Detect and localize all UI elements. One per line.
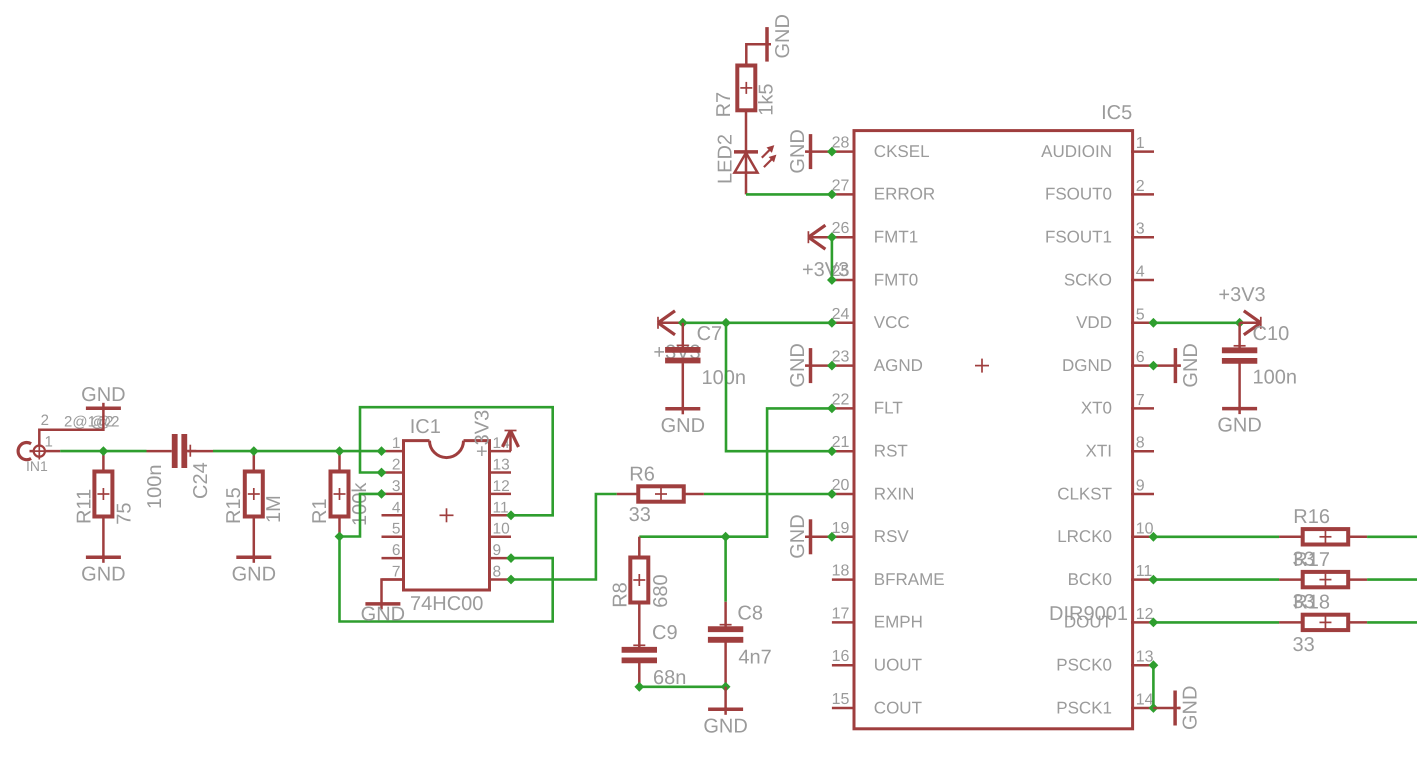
node FLT (827, 404, 837, 414)
svg-text:1k5: 1k5 (756, 84, 778, 116)
svg-text:4: 4 (392, 499, 401, 516)
svg-text:4: 4 (1136, 264, 1145, 281)
svg-text:GND: GND (1180, 343, 1202, 387)
pin 21 RST (IC5) (832, 434, 908, 460)
node C9 bottom (634, 682, 644, 692)
IC U5 DIR9001 body IC5 (854, 131, 1133, 729)
svg-text:22: 22 (832, 391, 850, 408)
ground GND (IC5 pin6 DGND) (1153, 343, 1202, 387)
svg-text:+3V3: +3V3 (1218, 284, 1265, 306)
pin 4 SCKO (IC5) (1064, 264, 1154, 290)
svg-text:IC5: IC5 (1101, 102, 1132, 124)
svg-text:2: 2 (41, 412, 49, 429)
resistor R7 (737, 44, 771, 110)
resistor R15 (245, 451, 263, 555)
svg-text:680: 680 (650, 574, 672, 607)
node C7 top (678, 318, 688, 328)
node BCK0 (1149, 575, 1159, 585)
wire LED2 to ERROR pin27 (746, 193, 832, 196)
capacitor C8 (708, 537, 743, 687)
pin 10 (IC1) (490, 521, 512, 538)
node IC1 pin8 (506, 575, 516, 585)
pin 16 UOUT (IC5) (832, 648, 922, 674)
+3V3 supply (FMT1/FMT0) (808, 225, 832, 249)
svg-text:10: 10 (493, 521, 511, 538)
ground GND (PSCK1) (1153, 686, 1201, 730)
ground GND (IC5 pin23 AGND) (787, 343, 832, 387)
svg-text:C24: C24 (190, 462, 212, 499)
resistor R8 (630, 537, 648, 603)
wire R6 to RXIN pin20 (704, 493, 832, 496)
node RXIN (827, 489, 837, 499)
svg-text:R11: R11 (73, 489, 95, 524)
svg-text:5: 5 (1136, 306, 1145, 323)
svg-text:27: 27 (832, 177, 850, 194)
node DOUT (1149, 618, 1159, 628)
svg-text:C10: C10 (1253, 323, 1290, 345)
node IC1 pin2 (377, 468, 387, 478)
svg-text:XTI: XTI (1086, 442, 1112, 461)
svg-text:R7: R7 (713, 92, 735, 118)
svg-text:1: 1 (392, 435, 401, 452)
wire BCK0 to R17 (1153, 578, 1279, 581)
resistor R11 (94, 451, 112, 555)
pin 8 (IC1) (490, 564, 512, 581)
svg-text:6: 6 (392, 542, 401, 559)
pin 15 COUT (IC5) (832, 691, 922, 717)
LED LED2 (734, 110, 776, 194)
pin 22 FLT (IC5) (832, 391, 903, 417)
+3V3 supply (IC1 pin14) (503, 431, 519, 452)
wire FLT net (639, 408, 832, 536)
ground GND (IC5 pin19 RSV) (787, 514, 832, 558)
wire VDD to +3V3 (1153, 321, 1239, 324)
pin 8 XTI (IC5) (1086, 435, 1154, 461)
pin 3 FSOUT1 (IC5) (1045, 221, 1154, 247)
ground GND (top of IN1) (81, 384, 125, 410)
svg-text:GND: GND (787, 343, 809, 387)
svg-text:GND: GND (81, 563, 125, 585)
svg-text:2: 2 (1136, 178, 1145, 195)
ground GND (C7) (661, 407, 705, 437)
pin 7 (IC1) (382, 564, 405, 581)
svg-text:1: 1 (1136, 135, 1145, 152)
resistor R1 (331, 451, 349, 536)
svg-text:15: 15 (832, 691, 850, 708)
wire main input net (60, 450, 146, 453)
svg-text:PSCK1: PSCK1 (1056, 698, 1112, 717)
svg-text:BFRAME: BFRAME (874, 570, 945, 589)
svg-text:23: 23 (832, 349, 850, 366)
node AGND (827, 361, 837, 371)
svg-text:1: 1 (45, 434, 53, 451)
node DGND (1149, 361, 1159, 371)
pin 6 DGND (IC5) (1062, 349, 1154, 375)
svg-text:1M: 1M (263, 495, 285, 523)
svg-text:28: 28 (832, 135, 850, 152)
wire IN1 pin1 stub (45, 450, 60, 453)
svg-text:FSOUT0: FSOUT0 (1045, 185, 1112, 204)
svg-text:AGND: AGND (874, 356, 923, 375)
wire IC1 pin2 loop to pin11 (360, 407, 553, 515)
ground GND (C8) (703, 687, 747, 738)
svg-text:ERROR: ERROR (874, 185, 935, 204)
pin 3 (IC1) (382, 478, 405, 495)
svg-text:GND: GND (1217, 415, 1261, 437)
svg-text:8: 8 (493, 564, 502, 581)
svg-text:GND: GND (81, 384, 125, 406)
wire C9 bottom to C8 bottom (639, 685, 725, 688)
pin 11 BCK0 (IC5) (1068, 563, 1154, 589)
pin 12 (IC1) (490, 478, 512, 495)
svg-text:C9: C9 (652, 622, 678, 644)
svg-text:GND: GND (232, 563, 276, 585)
svg-text:2: 2 (392, 457, 401, 474)
svg-text:11: 11 (493, 499, 509, 516)
pin 26 FMT1 (IC5) (832, 220, 919, 246)
svg-text:FMT1: FMT1 (874, 228, 918, 247)
node VCC/RST branch (721, 318, 731, 328)
node R1 bottom junction (335, 532, 345, 542)
svg-text:FSOUT1: FSOUT1 (1045, 228, 1112, 247)
svg-text:PSCK0: PSCK0 (1056, 656, 1112, 675)
pin 14 (IC1) (490, 435, 512, 452)
resistor R17 (1279, 572, 1367, 587)
wire R17 output (1367, 578, 1417, 581)
pin 1 (IC1) (382, 435, 405, 452)
svg-text:100n: 100n (702, 367, 747, 389)
svg-text:CLKST: CLKST (1057, 484, 1112, 503)
svg-text:7: 7 (392, 564, 401, 581)
node PSCK0 (1149, 660, 1159, 670)
svg-text:9: 9 (1136, 478, 1145, 495)
svg-text:13: 13 (493, 457, 510, 474)
svg-text:74HC00: 74HC00 (410, 593, 483, 615)
svg-text:UOUT: UOUT (874, 656, 922, 675)
svg-text:GND: GND (787, 129, 809, 173)
svg-text:GND: GND (703, 715, 747, 737)
svg-text:17: 17 (832, 605, 850, 622)
svg-text:C7: C7 (697, 323, 723, 345)
wire FMT1 to FMT0 (831, 237, 834, 280)
node R1 top junction (335, 446, 345, 456)
svg-text:33: 33 (1293, 634, 1315, 656)
svg-text:SCKO: SCKO (1064, 270, 1112, 289)
pin 6 (IC1) (382, 542, 405, 559)
svg-text:IN1: IN1 (26, 458, 48, 474)
ground GND (R11) (81, 555, 125, 585)
svg-text:100n: 100n (1253, 367, 1298, 389)
capacitor C10 (1222, 323, 1257, 407)
pin 28 CKSEL (IC5) (832, 135, 930, 161)
svg-text:16: 16 (832, 648, 850, 665)
resistor R6 (617, 486, 704, 501)
node FMT1 (827, 232, 837, 242)
capacitor C24 (147, 434, 214, 468)
ground GND (R7) (767, 14, 794, 62)
svg-text:19: 19 (832, 520, 850, 537)
pin 5 VDD (IC5) (1076, 306, 1154, 332)
wire RST to VCC branch (726, 323, 832, 451)
node VDD (1149, 318, 1159, 328)
svg-text:FMT0: FMT0 (874, 270, 918, 289)
svg-text:DGND: DGND (1062, 356, 1112, 375)
node IC1 pin3 (377, 489, 387, 499)
wire IN1 pin2 to GND (39, 408, 103, 445)
svg-text:COUT: COUT (874, 698, 922, 717)
svg-text:XT0: XT0 (1081, 399, 1112, 418)
+3V3 supply (VCC) (658, 311, 683, 335)
wire R16 output (1367, 535, 1417, 538)
svg-text:3: 3 (1136, 221, 1145, 238)
svg-text:21: 21 (832, 434, 850, 451)
node IC1 pin9 (506, 553, 516, 563)
svg-text:RST: RST (874, 442, 908, 461)
wire C24 to IC1 pin 1 (213, 450, 382, 453)
svg-text:RXIN: RXIN (874, 484, 915, 503)
svg-text:6: 6 (1136, 349, 1145, 366)
resistor R16 (1279, 529, 1367, 544)
pin 24 VCC (IC5) (832, 306, 910, 332)
pin 2 FSOUT0 (IC5) (1045, 178, 1154, 204)
svg-text:R6: R6 (629, 463, 655, 485)
svg-text:12: 12 (493, 478, 510, 495)
node R11 top junction (99, 446, 109, 456)
svg-text:@2: @2 (90, 414, 114, 431)
+3V3 supply (VDD) (1240, 311, 1261, 335)
svg-text:RSV: RSV (874, 527, 910, 546)
pin 4 (IC1) (382, 499, 405, 516)
pin 11 (IC1) (490, 499, 512, 516)
svg-text:R18: R18 (1293, 592, 1330, 614)
svg-text:CKSEL: CKSEL (874, 142, 930, 161)
pin 20 RXIN (IC5) (832, 477, 915, 503)
svg-text:26: 26 (832, 220, 850, 237)
svg-text:8: 8 (1136, 435, 1145, 452)
pin 7 XT0 (IC5) (1081, 392, 1154, 418)
resistor R18 (1279, 615, 1367, 630)
svg-text:FLT: FLT (874, 399, 903, 418)
node FMT0 (827, 275, 837, 285)
ground GND (IC1 pin7) (361, 580, 405, 626)
node C10 top (1235, 318, 1245, 328)
svg-text:EMPH: EMPH (874, 613, 923, 632)
IC U1 74HC00 body IC1 (404, 441, 490, 590)
pad names 2@1 2@2 (IN1) (64, 414, 119, 431)
node PSCK1 (1149, 703, 1159, 713)
pin 1 AUDIOIN (IC5) (1041, 135, 1154, 161)
pin 2 (IC1) (382, 457, 405, 474)
pin 10 LRCK0 (IC5) (1057, 520, 1154, 546)
svg-text:R17: R17 (1293, 549, 1330, 571)
node VCC pin24 (827, 318, 837, 328)
node ERROR (827, 190, 837, 200)
svg-text:R15: R15 (223, 487, 245, 524)
pin 27 ERROR (IC5) (832, 177, 936, 203)
svg-text:11: 11 (1136, 563, 1153, 580)
wire IC1 pin3 to R1 bottom (340, 494, 382, 537)
capacitor C9 (622, 603, 657, 687)
svg-text:R16: R16 (1293, 506, 1330, 528)
svg-text:18: 18 (832, 563, 850, 580)
svg-text:GND: GND (661, 415, 705, 437)
pin 12 DOUT (IC5) (1064, 606, 1154, 632)
svg-text:9: 9 (493, 542, 502, 559)
node R15 top junction (249, 446, 259, 456)
pin 18 BFRAME (IC5) (832, 563, 945, 589)
svg-text:GND: GND (787, 514, 809, 558)
ground GND (R15) (232, 555, 276, 585)
svg-text:GND: GND (772, 14, 794, 58)
node IC1 pin1 (377, 446, 387, 456)
node LRCK0 (1149, 532, 1159, 542)
svg-text:GND: GND (1180, 686, 1202, 730)
pin 13 PSCK0 (IC5) (1056, 649, 1154, 675)
svg-text:5: 5 (392, 521, 401, 538)
svg-text:DOUT: DOUT (1064, 613, 1112, 632)
node C8 bottom (721, 682, 731, 692)
svg-text:+3V3: +3V3 (802, 259, 849, 281)
pin 17 EMPH (IC5) (832, 605, 923, 631)
svg-text:3: 3 (392, 478, 401, 495)
svg-text:20: 20 (832, 477, 850, 494)
svg-text:24: 24 (832, 306, 850, 323)
svg-text:AUDIOIN: AUDIOIN (1041, 142, 1112, 161)
svg-text:VCC: VCC (874, 313, 910, 332)
ground GND (IC5 pin28 CKSEL) (787, 129, 832, 173)
capacitor C7 (665, 323, 700, 408)
wire DOUT to R18 (1153, 621, 1279, 624)
pin 9 CLKST (IC5) (1057, 478, 1154, 504)
svg-text:GND: GND (361, 604, 405, 626)
node RST (827, 446, 837, 456)
node IC1 pin11 (506, 510, 516, 520)
svg-text:BCK0: BCK0 (1068, 570, 1112, 589)
connector IN1 (18, 443, 48, 475)
node C8 top (721, 532, 731, 542)
wire IC1 pin8 to R6 (511, 494, 617, 580)
svg-text:LRCK0: LRCK0 (1057, 527, 1112, 546)
pin 19 RSV (IC5) (832, 520, 910, 546)
svg-text:7: 7 (1136, 392, 1145, 409)
svg-text:4n7: 4n7 (738, 647, 771, 669)
svg-text:VDD: VDD (1076, 313, 1112, 332)
pin 9 (IC1) (490, 542, 512, 559)
wire VCC net (683, 321, 832, 324)
wire PSCK0 to PSCK1 (1152, 665, 1155, 708)
node CKSEL (827, 147, 837, 157)
ground GND (C10) (1217, 407, 1261, 437)
svg-text:C8: C8 (737, 602, 763, 624)
svg-text:100n: 100n (144, 465, 166, 510)
svg-text:33: 33 (629, 504, 651, 526)
wire R1 bottom loop to IC1 pin9 (340, 537, 553, 622)
svg-text:LED2: LED2 (714, 134, 736, 184)
pin 14 PSCK1 (IC5) (1056, 692, 1154, 718)
pin 13 (IC1) (490, 457, 512, 474)
pin 5 (IC1) (382, 521, 405, 538)
wire R18 output (1367, 621, 1417, 624)
node RSV (827, 532, 837, 542)
wire LRCK0 to R16 (1153, 535, 1279, 538)
svg-text:IC1: IC1 (410, 416, 441, 438)
svg-text:R1: R1 (309, 498, 331, 524)
pin 23 AGND (IC5) (832, 349, 923, 375)
svg-text:+3V3: +3V3 (472, 410, 494, 457)
svg-text:R8: R8 (610, 582, 632, 608)
svg-text:75: 75 (114, 503, 136, 525)
pin 25 FMT0 (IC5) (832, 263, 919, 289)
